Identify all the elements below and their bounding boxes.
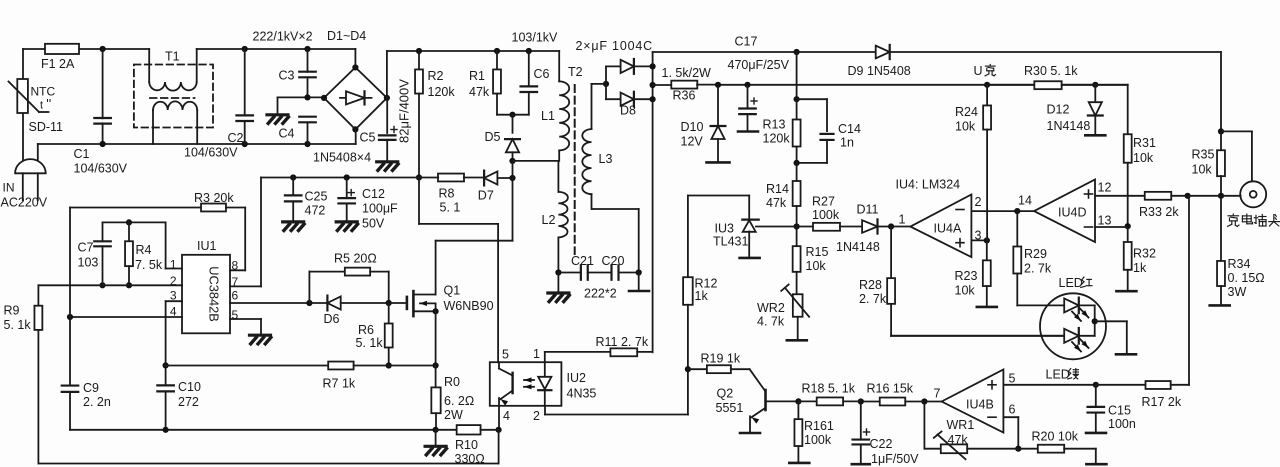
wire pin4 row xyxy=(67,314,182,320)
label pin6 (IU1) xyxy=(232,289,239,303)
svg-text:C4: C4 xyxy=(279,127,295,141)
svg-text:R161: R161 xyxy=(804,419,834,433)
svg-text:47k: 47k xyxy=(948,433,969,447)
wire AC bottom rail xyxy=(38,141,356,162)
resistor R20 xyxy=(1018,445,1096,464)
svg-text:470μF/25V: 470μF/25V xyxy=(728,58,790,72)
svg-text:2W: 2W xyxy=(444,408,463,422)
resistor R28 xyxy=(887,227,1064,336)
label C5 xyxy=(360,131,376,145)
label R19 1k xyxy=(701,352,741,366)
svg-text:82μF/400V: 82μF/400V xyxy=(397,79,412,143)
label C17 xyxy=(735,35,758,49)
svg-text:3: 3 xyxy=(170,288,177,302)
svg-text:C15: C15 xyxy=(1108,404,1131,418)
svg-text:47k: 47k xyxy=(766,196,787,210)
label pin1 xyxy=(899,213,906,227)
svg-text:10k: 10k xyxy=(1133,151,1154,165)
label Q2 5551 xyxy=(716,387,744,416)
label C25 472 xyxy=(305,190,328,218)
label C7 103 xyxy=(78,241,99,270)
svg-text:R34: R34 xyxy=(1228,257,1251,271)
svg-text:D9 1N5408: D9 1N5408 xyxy=(848,64,911,78)
svg-text:C2: C2 xyxy=(228,131,244,145)
svg-text:R15: R15 xyxy=(806,245,829,259)
label pin2 (IU1) xyxy=(170,274,177,288)
svg-text:T1: T1 xyxy=(165,50,180,64)
label R7 1k xyxy=(323,377,356,391)
label R28 2.7k xyxy=(859,278,887,306)
label 470uF/25V xyxy=(728,58,790,72)
label R10 330ohm xyxy=(455,438,485,466)
label D5 xyxy=(485,130,501,144)
resistor R31 xyxy=(1095,85,1131,229)
label WR1 47k xyxy=(947,418,975,447)
svg-text:R17 2k: R17 2k xyxy=(1142,395,1182,409)
svg-text:C22: C22 xyxy=(870,437,893,451)
label R4 7.5k xyxy=(135,243,163,272)
svg-text:R24: R24 xyxy=(955,105,978,119)
label R18 5.1k xyxy=(802,382,856,396)
svg-text:R7 1k: R7 1k xyxy=(323,377,356,391)
wire C3-C4 midnode xyxy=(278,94,325,113)
label R12 1k xyxy=(695,277,718,304)
svg-text:1. 5k/2W: 1. 5k/2W xyxy=(662,66,712,80)
svg-text:12V: 12V xyxy=(681,135,704,149)
transformer T1 xyxy=(134,49,213,144)
winding L1 xyxy=(559,51,569,161)
label IU4 LM324 xyxy=(896,178,961,192)
svg-text:5. 1: 5. 1 xyxy=(440,201,461,215)
wire pin12 row xyxy=(1095,195,1145,197)
resistor R15 xyxy=(793,227,801,295)
label R20 10k xyxy=(1032,430,1079,444)
svg-text:R4: R4 xyxy=(136,243,152,257)
resistor R23 xyxy=(983,240,991,306)
ground (C5) xyxy=(377,162,398,171)
resistor R29 xyxy=(1013,211,1021,305)
wire opto pin2 return xyxy=(545,406,688,415)
label R29 2.7k xyxy=(1024,247,1052,276)
wire AC line top rail xyxy=(23,46,355,52)
capacitor C3 xyxy=(299,49,316,97)
svg-text:C7: C7 xyxy=(78,241,94,255)
svg-text:R16 15k: R16 15k xyxy=(867,382,914,396)
label pin13 xyxy=(1098,214,1112,228)
svg-text:2. 7k: 2. 7k xyxy=(1024,262,1052,276)
wire pin7 node xyxy=(921,398,941,404)
label pin7 xyxy=(934,387,941,401)
svg-text:6: 6 xyxy=(232,289,239,303)
svg-text:D11: D11 xyxy=(857,203,879,217)
svg-text:100k: 100k xyxy=(804,433,832,447)
svg-text:C1: C1 xyxy=(74,147,90,161)
svg-text:C21: C21 xyxy=(571,254,594,268)
svg-text:100n: 100n xyxy=(1108,417,1136,431)
svg-text:103/1kV: 103/1kV xyxy=(512,31,559,45)
svg-text:1N4148: 1N4148 xyxy=(836,240,880,254)
svg-text:L2: L2 xyxy=(542,213,556,227)
ground (R32) xyxy=(1116,290,1136,293)
resistor R18 xyxy=(798,397,860,405)
op-amp IU4D xyxy=(1034,180,1095,243)
svg-text:5. 1k: 5. 1k xyxy=(4,318,32,332)
label R34 0.15ohm 3W xyxy=(1228,257,1265,299)
resistor R2 xyxy=(415,51,423,181)
svg-text:6: 6 xyxy=(1009,403,1016,417)
svg-text:R31: R31 xyxy=(1133,136,1156,150)
wire pin3 net xyxy=(163,301,183,385)
svg-text:C10: C10 xyxy=(178,380,201,394)
label D10 12V xyxy=(681,120,704,149)
svg-text:D12: D12 xyxy=(1047,103,1070,117)
svg-text:IU4D: IU4D xyxy=(1058,206,1086,220)
thermistor NTC SD-11 xyxy=(9,79,49,113)
mosfet Q1 W6NB90 xyxy=(407,241,439,366)
wire pin13 row xyxy=(1095,226,1128,228)
capacitor C9 xyxy=(62,386,79,430)
svg-text:D6: D6 xyxy=(324,312,340,326)
label D6 xyxy=(324,312,340,326)
label R30 5.1k xyxy=(1024,64,1078,78)
svg-text:272: 272 xyxy=(178,395,199,409)
diode D11 xyxy=(862,219,910,233)
resistor R9 xyxy=(34,285,42,463)
label R27 100k xyxy=(812,195,840,223)
node C20 right xyxy=(619,269,642,290)
label R13 120k xyxy=(763,118,791,146)
label pin12 xyxy=(1098,181,1112,195)
label WR2 4.7k xyxy=(757,301,785,329)
capacitor C6 xyxy=(509,51,537,118)
svg-text:104/630V: 104/630V xyxy=(74,162,128,176)
svg-text:C5: C5 xyxy=(360,131,376,145)
capacitor C22 xyxy=(853,398,870,463)
svg-text:5551: 5551 xyxy=(716,401,744,415)
label C14 1n xyxy=(838,122,861,150)
label R24 10k xyxy=(955,105,978,134)
svg-text:Q2: Q2 xyxy=(717,387,734,401)
svg-text:TL431: TL431 xyxy=(713,235,748,249)
label SD-11 xyxy=(29,120,64,134)
svg-text:D5: D5 xyxy=(485,130,501,144)
label pin3 xyxy=(975,229,982,243)
label R161 100k xyxy=(804,419,834,447)
capacitor C1 xyxy=(94,49,111,144)
svg-text:AC220V: AC220V xyxy=(1,196,48,210)
svg-text:C3: C3 xyxy=(279,69,295,83)
resistor R19 xyxy=(688,365,750,373)
AC plug IN AC220V xyxy=(15,159,46,200)
ground (C20 node) xyxy=(629,290,649,293)
label Q1 W6NB90 xyxy=(444,284,494,314)
svg-text:C6: C6 xyxy=(534,67,550,81)
resistor R5 xyxy=(309,268,388,303)
wire pin5 net xyxy=(230,319,261,334)
label opto pin4 xyxy=(503,409,510,423)
svg-text:C25: C25 xyxy=(305,190,328,204)
svg-text:R32: R32 xyxy=(1133,247,1156,261)
label C20 xyxy=(602,254,625,268)
label IU1 xyxy=(197,239,217,253)
label 1N4148 (D11) xyxy=(836,240,880,254)
capacitor C21 xyxy=(581,265,588,280)
op-amp IU4A xyxy=(910,195,971,258)
label R11 2.7k xyxy=(596,335,649,349)
svg-text:120k: 120k xyxy=(763,132,791,146)
wire R3 feedback column xyxy=(69,208,71,386)
svg-text:IU1: IU1 xyxy=(197,239,217,253)
label 1N5408 x4 xyxy=(313,151,371,165)
label D1~D4 xyxy=(327,29,366,43)
svg-text:R19 1k: R19 1k xyxy=(701,352,741,366)
label L3 xyxy=(599,152,613,166)
potentiometer WR1 xyxy=(924,402,1018,460)
resistor R17 xyxy=(1096,196,1189,389)
label C2 xyxy=(228,131,244,145)
resistor R34 xyxy=(1217,196,1225,305)
label C15 100n xyxy=(1108,404,1136,432)
label R32 1k xyxy=(1133,247,1156,276)
label T1 xyxy=(165,50,180,64)
svg-text:1μF/50V: 1μF/50V xyxy=(871,452,919,466)
wire LED common xyxy=(1095,321,1127,353)
svg-text:14: 14 xyxy=(1018,194,1032,208)
node R19 tap xyxy=(685,366,691,372)
label C3 xyxy=(279,69,295,83)
svg-text:R27: R27 xyxy=(812,195,835,209)
node L2 bottom xyxy=(555,269,581,292)
ground (C17) xyxy=(738,130,758,133)
label R35 10k xyxy=(1192,148,1215,177)
label D8 xyxy=(620,104,636,118)
svg-text:13: 13 xyxy=(1098,214,1112,228)
label R3 20k xyxy=(194,191,234,205)
svg-text:103: 103 xyxy=(78,256,99,270)
svg-text:R3 20k: R3 20k xyxy=(194,191,234,205)
svg-text:C12: C12 xyxy=(362,187,385,201)
label 222/1kV x2 xyxy=(253,30,313,44)
label D11 xyxy=(857,203,879,217)
svg-text:10k: 10k xyxy=(955,284,976,298)
label C6 xyxy=(534,67,550,81)
resistor R4 xyxy=(125,222,133,288)
svg-text:NTC: NTC xyxy=(31,85,56,99)
svg-text:R33 2k: R33 2k xyxy=(1139,205,1179,219)
wire gate lead xyxy=(389,302,407,304)
bridge rectifier D1-D4 xyxy=(321,49,390,144)
label T2 xyxy=(568,65,583,79)
label LED-green xyxy=(1046,368,1079,382)
diode D5 xyxy=(505,115,520,161)
label IU4D xyxy=(1058,206,1086,220)
label D12 1N4148 xyxy=(1047,103,1091,134)
svg-text:T2: T2 xyxy=(568,65,583,79)
svg-text:1n: 1n xyxy=(840,136,854,150)
svg-text:472: 472 xyxy=(305,204,326,218)
svg-text:1k: 1k xyxy=(695,289,709,303)
wire VCC rail xyxy=(261,174,438,180)
diode D6 xyxy=(309,296,391,311)
svg-text:WR2: WR2 xyxy=(757,301,785,315)
wire pin3 node xyxy=(971,237,990,243)
svg-text:R35: R35 xyxy=(1192,148,1215,162)
svg-text:4N35: 4N35 xyxy=(567,387,597,401)
resistor R16 xyxy=(861,398,925,406)
svg-text:330Ω: 330Ω xyxy=(455,452,485,466)
diode D7 xyxy=(484,171,515,186)
label R0 6.2ohm 2W xyxy=(444,375,474,422)
svg-text:1N5408×4: 1N5408×4 xyxy=(313,151,371,165)
label R17 2k xyxy=(1142,395,1182,409)
shunt regulator IU3 TL431 xyxy=(688,196,797,258)
label pin7 (IU1) xyxy=(232,275,239,289)
svg-text:C14: C14 xyxy=(838,122,861,136)
label pin4 (IU1) xyxy=(170,305,177,319)
ground (R161) xyxy=(789,462,809,465)
svg-text:t: t xyxy=(40,100,43,112)
resistor R32 xyxy=(1124,227,1132,290)
svg-text:1: 1 xyxy=(533,347,540,361)
ground (R34) xyxy=(1210,304,1230,307)
svg-text:R20 10k: R20 10k xyxy=(1032,430,1079,444)
svg-text:C17: C17 xyxy=(735,35,758,49)
svg-text:R29: R29 xyxy=(1024,247,1047,261)
label charging-plug xyxy=(1228,214,1280,226)
resistor R24 xyxy=(983,85,991,241)
svg-text:R30 5. 1k: R30 5. 1k xyxy=(1024,64,1078,78)
svg-text:UC3842B: UC3842B xyxy=(207,266,222,322)
capacitor C5 xyxy=(379,98,397,161)
resistor R6 xyxy=(385,303,393,369)
capacitor C14 xyxy=(797,99,834,163)
svg-text:10k: 10k xyxy=(806,259,827,273)
label C21 xyxy=(571,254,594,268)
svg-text:222/1kV×2: 222/1kV×2 xyxy=(253,30,313,44)
transformer T2 core xyxy=(574,85,576,254)
svg-text:12: 12 xyxy=(1098,181,1112,195)
resistor R10 xyxy=(436,425,499,434)
label opto pin1 xyxy=(533,347,540,361)
ground (D10) xyxy=(707,161,730,164)
svg-text:R8: R8 xyxy=(439,187,455,201)
label pin2 xyxy=(975,195,982,209)
wire C9/C10 ground row xyxy=(70,427,436,433)
label R36 xyxy=(673,89,696,103)
label 103/1kV xyxy=(512,31,559,45)
winding L2 xyxy=(558,161,568,273)
ground (Q2) xyxy=(740,432,760,435)
label R1 47k xyxy=(469,69,490,99)
capacitor C15 xyxy=(1088,385,1105,432)
label pin6 xyxy=(1009,403,1016,417)
svg-text:LED: LED xyxy=(1059,276,1083,290)
label 222*2 xyxy=(584,287,617,301)
svg-text:R10: R10 xyxy=(455,438,478,452)
wire R2 column to opto xyxy=(419,178,498,224)
svg-text:R11 2. 7k: R11 2. 7k xyxy=(596,335,649,349)
ground (C25) xyxy=(283,222,304,231)
svg-text:R13: R13 xyxy=(763,118,786,132)
svg-text:104/630V: 104/630V xyxy=(184,146,238,160)
label R2 120k xyxy=(428,69,456,99)
svg-text:5. 1k: 5. 1k xyxy=(356,336,384,350)
ground (LED) xyxy=(1116,353,1136,356)
ground (C12) xyxy=(336,222,357,231)
svg-text:LED: LED xyxy=(1046,368,1070,382)
svg-text:1: 1 xyxy=(899,213,906,227)
wire C21-C20 xyxy=(588,272,612,274)
wire D8 cathode bus xyxy=(650,52,656,352)
label C12 100uF 50V xyxy=(362,187,398,231)
label R16 15k xyxy=(867,382,914,396)
svg-text:100μF: 100μF xyxy=(362,202,398,216)
capacitor C25 xyxy=(285,178,302,221)
wire bottom return rail xyxy=(38,430,498,464)
svg-text:4. 7k: 4. 7k xyxy=(757,315,785,329)
ground (R20) xyxy=(1086,463,1106,466)
svg-text:IU4: LM324: IU4: LM324 xyxy=(896,178,961,192)
svg-text:5: 5 xyxy=(1009,372,1016,386)
svg-text:1N4148: 1N4148 xyxy=(1047,119,1091,133)
svg-text:C9: C9 xyxy=(83,381,99,395)
svg-text:R0: R0 xyxy=(444,375,460,389)
label C4 xyxy=(279,127,295,141)
svg-text:L3: L3 xyxy=(599,152,613,166)
wire pin2 to node14 xyxy=(971,208,1034,214)
transistor Q2 xyxy=(750,369,802,432)
svg-text:IU3: IU3 xyxy=(715,222,735,236)
svg-text:100k: 100k xyxy=(812,208,840,222)
svg-text:F1 2A: F1 2A xyxy=(41,57,75,71)
LED green xyxy=(891,318,1098,351)
ground (TL431 anode) xyxy=(740,257,760,260)
LED indicator circle xyxy=(1040,293,1106,359)
wire pin6 row xyxy=(230,300,313,306)
svg-text:IU2: IU2 xyxy=(567,371,587,385)
svg-text:D8: D8 xyxy=(620,104,636,118)
potentiometer WR2 xyxy=(781,285,809,340)
wire bridge+ to DC rail xyxy=(387,48,559,98)
label R6 5.1k xyxy=(356,323,384,350)
label pin5 xyxy=(1009,372,1016,386)
winding L3 xyxy=(582,84,638,273)
label R9 5.1k xyxy=(4,304,32,333)
svg-text:R6: R6 xyxy=(358,323,374,337)
op-amp IU4B xyxy=(942,370,1004,433)
wire rail to plug column xyxy=(890,52,1224,134)
capacitor C12 xyxy=(338,178,355,221)
svg-text:D7: D7 xyxy=(478,189,494,203)
resistor R3 xyxy=(70,204,245,271)
ground (IU1 pin5) xyxy=(250,335,271,344)
resistor R36 xyxy=(653,81,718,89)
wire NTC branch xyxy=(22,49,24,161)
label R14 47k xyxy=(766,182,789,210)
label C22 1uF/50V xyxy=(870,437,920,466)
svg-text:3W: 3W xyxy=(1228,285,1247,299)
resistor R7 xyxy=(166,362,439,370)
svg-text:10k: 10k xyxy=(955,120,976,134)
svg-text:10k: 10k xyxy=(1192,163,1213,177)
wire plug positive xyxy=(1221,131,1252,181)
optocoupler IU2 4N35 xyxy=(490,362,562,406)
svg-text:R36: R36 xyxy=(673,89,696,103)
diode D8 pair xyxy=(591,59,652,107)
label R5 20ohm xyxy=(334,252,377,266)
label 1.5k/2W xyxy=(662,66,712,80)
label IU2 4N35 xyxy=(567,371,597,401)
